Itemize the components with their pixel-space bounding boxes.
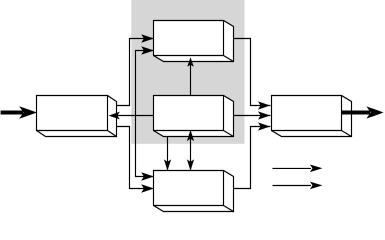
wire M->B vertical (arrow down into bottom box top): [167, 137, 169, 170]
arrowheads (thin, barbed): [109, 34, 271, 192]
right box R: [272, 96, 352, 137]
wire L->T (left box top output, up, into top box input 1): [117, 39, 153, 106]
wire T->R (top box right side, down, into right box input 1): [234, 39, 271, 106]
arrowhead into L (pointing left): [109, 112, 120, 120]
arrowhead into B input 1: [141, 172, 154, 180]
arrowhead into R input 2: [258, 111, 270, 119]
middle box M: [154, 96, 234, 137]
bottom box B: [154, 171, 234, 212]
wire bus: T input 2 and B input 1: [136, 51, 153, 177]
arrowhead into R input 3: [258, 122, 270, 130]
arrowhead into R input 1: [258, 101, 270, 109]
thick output arrow (out of right box): [342, 106, 384, 118]
arrowhead up into M underside (from B): [187, 130, 194, 141]
legend arrow 2 (thin, lower right): [273, 182, 323, 190]
wire M->T vertical (arrow up into top box underside): [190, 63, 192, 96]
top box T: [154, 21, 234, 62]
legend arrow 1 (thin, lower right): [273, 165, 323, 173]
wire M->R (middle box right side to right box input 2): [234, 115, 271, 117]
thick input arrow (into left box): [1, 106, 37, 118]
left box L: [37, 96, 117, 137]
arrowhead into B input 2: [141, 184, 154, 192]
shaded processor region: [131, 0, 244, 144]
wire M->L (middle box left side to left box, arrow into L): [110, 115, 154, 117]
arrowhead down into B top (from M): [164, 159, 171, 170]
arrowhead into T input 1: [141, 34, 154, 42]
arrowhead up into T underside (from M): [187, 57, 194, 67]
arrowhead into T input 2: [141, 46, 154, 54]
arrowhead down into B top (double-ended wire): [187, 159, 194, 170]
wire B->R (bottom box right side, up, into right box input 3): [234, 127, 271, 189]
wire M<->B double-headed vertical: [190, 137, 192, 170]
wire L->B (left box bottom output, down, into bottom box input 2): [117, 127, 153, 189]
